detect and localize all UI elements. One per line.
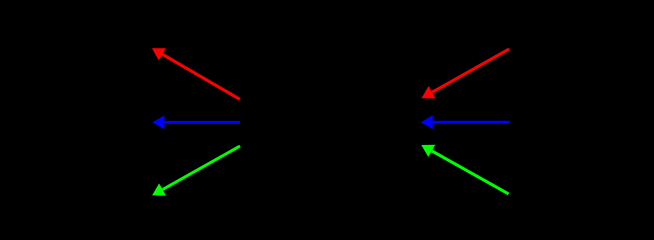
left red arrow (points up-left)	[152, 48, 240, 99]
right blue arrow (points left)	[421, 115, 510, 129]
left blue arrow (points left)	[152, 115, 240, 129]
right green arrow (points up-left)	[421, 145, 508, 194]
right red arrow (points down-left)	[422, 49, 510, 98]
left green arrow (points down-left)	[152, 146, 240, 196]
